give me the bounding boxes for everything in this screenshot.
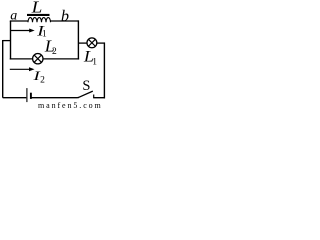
wire bottom middle: [31, 97, 78, 99]
svg-text:manfen5.com: manfen5.com: [38, 101, 103, 110]
label I2: [32, 69, 45, 86]
svg-text:S: S: [82, 78, 90, 94]
node b label: [61, 8, 69, 25]
svg-text:2: 2: [52, 47, 57, 57]
wire L1 branch left: [79, 42, 87, 44]
svg-text:2: 2: [40, 76, 45, 86]
switch S: [77, 91, 93, 98]
svg-text:L: L: [31, 0, 43, 16]
wire jog to outer left: [3, 40, 11, 42]
wire L2 branch right: [43, 58, 79, 60]
wire L2 branch left: [10, 58, 33, 60]
wire top left segment a to coil: [10, 20, 28, 22]
wire top right segment coil to corner: [51, 20, 79, 22]
wire bottom right: [93, 97, 105, 99]
wire bottom left: [3, 97, 27, 99]
label L (inductor): [31, 0, 43, 16]
wire outer left vertical: [2, 40, 4, 98]
lamp L2: [33, 54, 43, 64]
current arrow I1: [11, 29, 35, 33]
battery: [27, 88, 31, 102]
label L1: [83, 48, 97, 68]
inductor L coil: [28, 18, 51, 23]
svg-text:b: b: [61, 8, 69, 25]
node a label: [10, 9, 17, 24]
watermark: [38, 101, 103, 110]
current arrow I2: [10, 67, 35, 71]
wire left vertical: [10, 21, 12, 60]
inductor L core bar: [27, 14, 50, 16]
wire L1 branch right: [97, 42, 105, 44]
wire right vertical: [103, 42, 105, 98]
svg-text:a: a: [10, 9, 17, 24]
label L2: [44, 37, 57, 57]
wire inner right vertical: [77, 20, 79, 59]
label S (switch): [82, 78, 90, 94]
svg-text:1: 1: [92, 58, 97, 68]
label I1: [36, 22, 47, 39]
lamp L1: [87, 38, 97, 48]
